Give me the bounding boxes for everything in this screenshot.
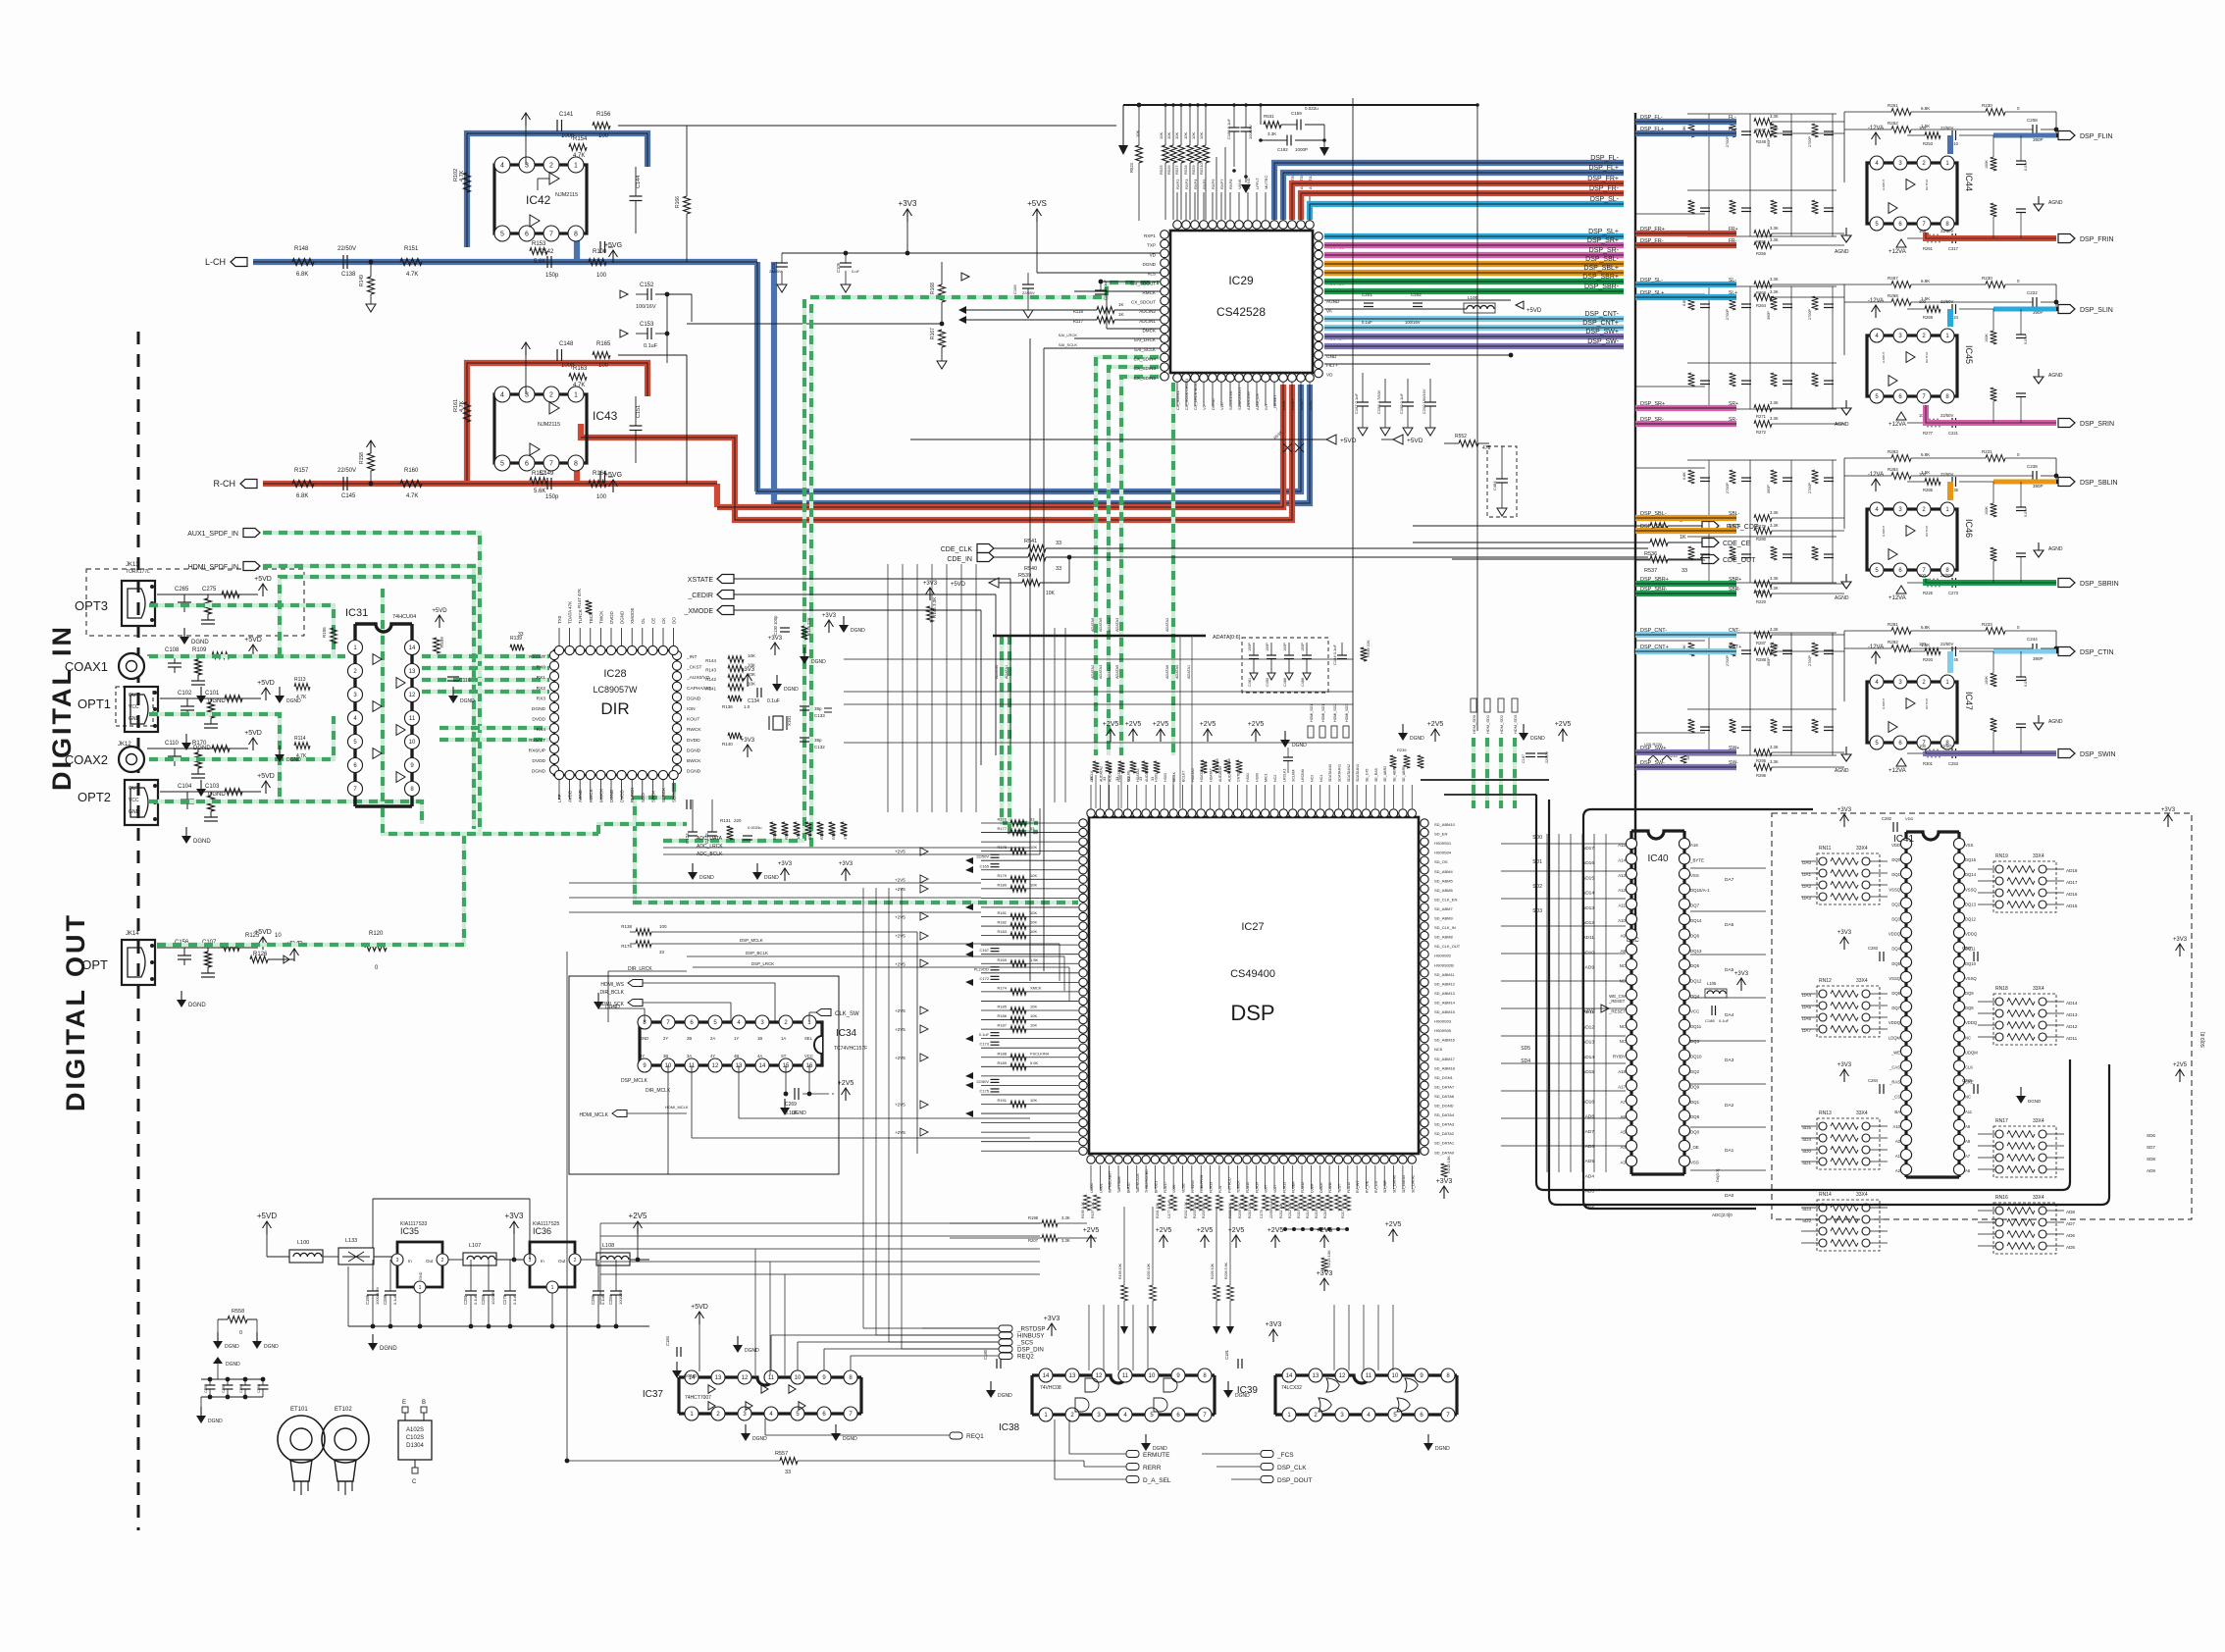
svg-text:CDE_IN: CDE_IN (947, 556, 972, 563)
svg-text:LPF: LPF (557, 794, 562, 802)
svg-text:RWCK: RWCK (687, 727, 701, 733)
svg-text:INT: INT (1264, 403, 1268, 410)
svg-text:CX_SDIN2: CX_SDIN2 (1134, 376, 1157, 381)
svg-text:SD_ABM15: SD_ABM15 (1434, 1009, 1456, 1014)
svg-text:2700P: 2700P (1808, 655, 1812, 666)
svg-text:ADATA5: ADATA5 (1099, 618, 1103, 632)
svg-text:R142: R142 (705, 677, 716, 682)
svg-text:R189: R189 (997, 1060, 1007, 1065)
IC36 regulator KIA1117S25 (530, 1242, 575, 1287)
svg-text:390P: 390P (2033, 656, 2044, 661)
svg-text:R205 10K: R205 10K (1211, 1263, 1215, 1279)
svg-text:R195 3.3K: R195 3.3K (1081, 1201, 1085, 1218)
svg-text:DSP_SR-: DSP_SR- (1589, 247, 1620, 254)
svg-text:DA7: DA7 (1802, 1028, 1811, 1033)
svg-text:SD4: SD4 (1802, 1137, 1811, 1142)
svg-text:100K: 100K (1985, 334, 1989, 342)
svg-text:L-CH: L-CH (205, 257, 226, 267)
svg-text:2700P: 2700P (1726, 309, 1730, 320)
svg-text:DGND: DGND (687, 696, 701, 701)
svg-text:33: 33 (1030, 826, 1035, 831)
svg-text:C103: C103 (205, 784, 220, 790)
svg-text:DO: DO (672, 617, 677, 624)
svg-text:DA2: DA2 (1725, 1103, 1734, 1109)
resistor network RN11 (1817, 853, 1880, 904)
svg-text:R225: R225 (1923, 591, 1934, 595)
svg-text:R528: R528 (1183, 165, 1188, 175)
svg-text:R105: R105 (322, 627, 327, 638)
svg-text:DSP_SBR+: DSP_SBR+ (1640, 577, 1669, 583)
svg-text:C172: C172 (979, 976, 989, 981)
svg-text:22/50V: 22/50V (1940, 299, 1953, 304)
svg-text:0.1uF: 0.1uF (979, 1032, 990, 1037)
svg-text:HDM_SD1: HDM_SD1 (1485, 714, 1490, 734)
svg-text:DQ11: DQ11 (1690, 1024, 1702, 1029)
lines from DSP bottom to logic chips (1088, 1305, 1090, 1370)
svg-text:33: 33 (1682, 568, 1687, 574)
C197-C200 bottom right of IC29 (1362, 373, 1364, 402)
wire green HDMI (263, 566, 474, 829)
svg-text:AD11: AD11 (2066, 1036, 2078, 1041)
svg-text:6.8K: 6.8K (1921, 106, 1930, 111)
wire green HDM_SD verticals (1472, 738, 1475, 808)
wire color stub DSP_SLIN (1993, 307, 2023, 312)
svg-text:DSP_SW-: DSP_SW- (1587, 338, 1619, 345)
svg-text:C158: C158 (1012, 284, 1017, 294)
svg-text:XMCK: XMCK (1030, 985, 1042, 990)
svg-text:R216 10K: R216 10K (1323, 1202, 1327, 1218)
IC40 (1631, 831, 1684, 1174)
svg-text:A7: A7 (1621, 1100, 1627, 1105)
svg-text:R135: R135 (819, 830, 824, 840)
svg-text:FR-: FR- (1729, 238, 1737, 244)
-12VA supply (1875, 652, 1877, 664)
svg-text:D1304: D1304 (406, 1443, 424, 1449)
svg-text:4.7K: 4.7K (406, 272, 418, 278)
svg-text:AD1/CDIN: AD1/CDIN (1246, 391, 1251, 410)
routing lines left of DSP to IC34 (569, 882, 981, 884)
svg-text:DSP_SBR+: DSP_SBR+ (1582, 274, 1619, 281)
svg-text:CK: CK (661, 618, 666, 624)
svg-text:Out: Out (426, 1259, 434, 1264)
svg-text:R272: R272 (1756, 430, 1767, 435)
svg-text:+2V5: +2V5 (1083, 1227, 1100, 1234)
svg-text:FDA14: FDA14 (1255, 1182, 1259, 1193)
svg-text:AD6: AD6 (2066, 1233, 2075, 1238)
svg-text:HDMI_WS: HDMI_WS (600, 982, 624, 988)
+2V5 arrow (637, 1222, 639, 1234)
svg-text:SDATA4N2: SDATA4N2 (1347, 764, 1351, 782)
svg-text:+2V5: +2V5 (895, 877, 906, 882)
svg-text:DGND: DGND (188, 1003, 206, 1008)
svg-text:RX6/UP: RX6/UP (529, 748, 545, 753)
svg-text:150p: 150p (545, 273, 559, 279)
ET101 ring terminal (278, 1416, 325, 1463)
svg-text:IC37: IC37 (643, 1389, 664, 1400)
wire green ADC_DATA row (663, 839, 804, 843)
svg-text:C490: C490 (1266, 678, 1269, 687)
svg-text:0.1uF: 0.1uF (512, 1294, 517, 1305)
svg-text:22/50V: 22/50V (337, 246, 356, 252)
svg-text:RN13: RN13 (1819, 1110, 1832, 1116)
svg-text:C273: C273 (1948, 591, 1959, 595)
IC41 (1906, 832, 1959, 1177)
svg-text:AD9: AD9 (1585, 965, 1595, 971)
svg-text:DGND: DGND (286, 698, 301, 704)
wire green AUX1 (263, 533, 480, 836)
svg-text:NJM2115: NJM2115 (555, 192, 578, 198)
svg-text:R238: R238 (1227, 758, 1231, 767)
svg-text:R220: R220 (1756, 599, 1767, 604)
svg-text:+2V5: +2V5 (629, 1212, 647, 1220)
svg-text:SD3: SD3 (1802, 1207, 1811, 1212)
svg-text:DA0: DA0 (1802, 860, 1811, 865)
svg-text:+2V5: +2V5 (895, 1056, 906, 1060)
svg-text:SD_DATA1: SD_DATA1 (1402, 1175, 1406, 1193)
svg-text:1B: 1B (757, 1036, 762, 1041)
horizontal routing over DSP area (844, 658, 1353, 660)
svg-text:DSP_BCLK: DSP_BCLK (746, 951, 768, 955)
svg-text:C184 0.1uF: C184 0.1uF (1332, 645, 1337, 665)
svg-text:R114: R114 (294, 736, 306, 742)
svg-text:22/50V: 22/50V (1940, 573, 1953, 578)
output DSP_SRIN (1925, 420, 1940, 427)
cap C144 2700p right of IC42 (630, 195, 643, 197)
C105/C106 caps (782, 252, 907, 254)
svg-text:VD: VD (1326, 373, 1333, 378)
svg-text:3.3K: 3.3K (1770, 745, 1779, 749)
svg-text:22/50V: 22/50V (1940, 229, 1953, 233)
svg-text:C173: C173 (979, 1042, 989, 1047)
svg-text:SD_ABM10: SD_ABM10 (1434, 822, 1456, 827)
wire color stub DSP_SBLIN (1993, 480, 2023, 485)
svg-text:C195: C195 (365, 1294, 370, 1305)
svg-text:7: 7 (549, 232, 553, 238)
svg-text:HDM_SD3: HDM_SD3 (1513, 714, 1518, 734)
svg-text:LRCLK: LRCLK (1090, 770, 1094, 782)
svg-text:+3V3: +3V3 (1044, 1316, 1061, 1322)
svg-text:R269: R269 (1923, 315, 1934, 320)
svg-text:R281: R281 (1888, 622, 1898, 627)
svg-text:+3V3: +3V3 (1837, 1062, 1852, 1068)
svg-text:AUX1_SPDF_IN: AUX1_SPDF_IN (187, 531, 238, 538)
svg-text:V027: V027 (1273, 1185, 1277, 1193)
svg-text:6.8K: 6.8K (296, 272, 308, 278)
svg-text:DSP_CNT+: DSP_CNT+ (1582, 320, 1619, 327)
svg-text:C279: C279 (502, 1294, 507, 1305)
svg-text:-12VA: -12VA (1868, 472, 1884, 478)
svg-text:NC5: NC5 (1434, 1047, 1443, 1052)
svg-text:AGND: AGND (1835, 249, 1849, 255)
svg-text:R203 3.3K: R203 3.3K (1193, 1201, 1197, 1218)
svg-text:+2V5: +2V5 (895, 1008, 906, 1013)
svg-text:+3V3: +3V3 (1266, 1321, 1282, 1328)
svg-text:220: 220 (734, 818, 742, 823)
output DSP_FLIN (1925, 132, 1940, 139)
svg-text:NC2: NC2 (1273, 775, 1277, 782)
svg-text:ADATA3: ADATA3 (1099, 665, 1103, 679)
svg-text:R165: R165 (596, 341, 611, 347)
+5VD rail y448 (910, 439, 1326, 440)
svg-text:R191: R191 (997, 1098, 1007, 1103)
svg-text:22/50V: 22/50V (1940, 126, 1953, 130)
svg-text:3.3K: 3.3K (1770, 759, 1779, 764)
svg-text:R120: R120 (369, 931, 384, 937)
svg-text:R200 10K: R200 10K (1147, 1263, 1151, 1279)
svg-text:100: 100 (1919, 472, 1927, 477)
svg-text:DGND: DGND (784, 687, 799, 693)
svg-text:+3V3: +3V3 (923, 581, 938, 587)
svg-text:DSP_LRCK: DSP_LRCK (751, 961, 774, 966)
svg-text:R248: R248 (1756, 139, 1767, 144)
svg-text:RXP4: RXP4 (1193, 179, 1198, 189)
svg-text:DSP_SBR-: DSP_SBR- (1584, 284, 1620, 290)
cap bank C291-C294 (213, 1358, 218, 1366)
svg-text:CLK: CLK (1965, 1065, 1973, 1070)
svg-text:DGND: DGND (193, 839, 211, 845)
R218 10K right below DSP (1441, 1163, 1448, 1177)
svg-text:R217 10K: R217 10K (1341, 1202, 1345, 1218)
wire green IC31 loop (280, 577, 483, 656)
R157 6.8K (292, 481, 314, 488)
svg-text:C144: C144 (636, 176, 642, 188)
svg-text:CDE_CLK: CDE_CLK (941, 546, 973, 553)
svg-text:DQ13: DQ13 (1690, 949, 1702, 954)
svg-text:DSP_SW-: DSP_SW- (1640, 760, 1665, 766)
svg-text:100K: 100K (1985, 676, 1989, 685)
svg-text:HS09S01: HS09S01 (1434, 841, 1452, 846)
svg-text:VSS: VSS (1965, 843, 1974, 848)
svg-text:33X4: 33X4 (2033, 1118, 2044, 1124)
svg-text:+5VD: +5VD (257, 1212, 277, 1220)
svg-text:DSP_CTIN: DSP_CTIN (2080, 649, 2114, 656)
svg-text:AD11: AD11 (1582, 935, 1594, 941)
svg-text:74VHC08: 74VHC08 (1040, 1385, 1061, 1391)
svg-text:A3: A3 (1621, 1160, 1627, 1164)
svg-text:C175: C175 (979, 1088, 989, 1093)
svg-text:FPM/05: FPM/05 (1191, 1180, 1195, 1193)
svg-text:C486: C486 (1283, 678, 1287, 687)
svg-text:AGND: AGND (2048, 546, 2063, 552)
svg-text:2700P: 2700P (1808, 309, 1812, 320)
R151 4.7K (400, 259, 422, 266)
R105 resistors near IC31 (331, 628, 337, 644)
svg-text:3: 3 (396, 1258, 399, 1264)
svg-text:ADC[2:0]0: ADC[2:0]0 (1712, 1213, 1733, 1217)
svg-text:OL: OL (641, 617, 646, 624)
svg-text:SDATA4N1: SDATA4N1 (1337, 764, 1341, 782)
svg-text:C282: C282 (1882, 816, 1892, 821)
svg-text:2700P: 2700P (1726, 136, 1730, 147)
svg-text:0: 0 (239, 1330, 242, 1336)
wire green IC28 right RX rows (598, 824, 687, 834)
svg-text:C198 4.7/50V: C198 4.7/50V (1376, 389, 1381, 414)
svg-text:DQ8: DQ8 (1690, 1114, 1700, 1119)
svg-text:DGND: DGND (1435, 1446, 1450, 1452)
svg-text:NJM2115: NJM2115 (538, 422, 560, 428)
svg-text:HDMI_SPDF_IN: HDMI_SPDF_IN (188, 564, 238, 571)
svg-text:SD_ABM17: SD_ABM17 (1434, 1057, 1456, 1061)
svg-text:DGND: DGND (752, 1436, 767, 1442)
svg-text:REQ1: REQ1 (966, 1433, 984, 1440)
svg-text:R263: R263 (1756, 290, 1767, 295)
svg-text:DQ5: DQ5 (1690, 963, 1700, 968)
svg-text:100: 100 (1919, 299, 1927, 304)
output DSP_SBLIN (1925, 479, 1940, 486)
svg-text:R113: R113 (294, 677, 306, 683)
svg-text:_RSTDSP: _RSTDSP (1016, 1326, 1046, 1333)
svg-text:R538 22K: R538 22K (1366, 640, 1371, 657)
svg-text:In: In (408, 1259, 412, 1264)
svg-text:R146 22K: R146 22K (806, 617, 811, 636)
R145 3.3K right (927, 606, 934, 622)
svg-text:DGND: DGND (998, 1393, 1012, 1399)
svg-text:-12VA: -12VA (1868, 645, 1884, 650)
svg-text:33X4: 33X4 (2033, 986, 2044, 992)
photocoupler A102S/C102S/D1304 (398, 1420, 432, 1460)
svg-text:390P: 390P (1767, 657, 1771, 666)
svg-text:VLC: VLC (1219, 402, 1224, 410)
svg-text:R527: R527 (1174, 165, 1179, 175)
svg-text:FDA15: FDA15 (1246, 1182, 1250, 1193)
svg-text:+3V3: +3V3 (778, 861, 793, 867)
svg-text:R212 10K: R212 10K (1288, 1202, 1292, 1218)
svg-text:+2V5: +2V5 (1156, 1227, 1172, 1234)
svg-text:ADATA2: ADATA2 (1091, 665, 1095, 679)
long vertical trunks (1352, 98, 1354, 814)
svg-text:3.3K: 3.3K (1061, 1215, 1070, 1220)
svg-text:DQ10: DQ10 (1690, 1055, 1702, 1059)
C149 150p + R164 (546, 478, 548, 490)
svg-text:R164: R164 (593, 471, 607, 477)
L-CH input connector (231, 258, 247, 267)
svg-text:10K: 10K (1030, 929, 1037, 934)
inductor L107 (463, 1253, 496, 1265)
svg-text:33X4: 33X4 (1856, 1110, 1868, 1116)
filter L133 (338, 1248, 374, 1265)
svg-text:DGND: DGND (191, 640, 209, 645)
ET102 ring terminal (322, 1416, 369, 1463)
connectors _RSTDSP..REQ2 (999, 1325, 1012, 1332)
svg-text:C102: C102 (178, 691, 192, 697)
svg-text:+5VG: +5VG (604, 472, 622, 479)
svg-text:RN19: RN19 (1995, 853, 2008, 859)
svg-text:DQ1: DQ1 (1690, 1100, 1700, 1105)
section IC46 right RC (1991, 503, 1997, 517)
svg-text:RN18: RN18 (1995, 986, 2008, 992)
svg-text:SD_ABM5: SD_ABM5 (1434, 878, 1453, 883)
lines bottom-right bus area (0, 0, 186, 1)
connectors ERMUTE/RERR/D_A_SEL (1126, 1451, 1139, 1458)
svg-text:DVDD: DVDD (532, 758, 545, 764)
svg-text:12: 12 (1096, 1373, 1103, 1379)
svg-text:10: 10 (795, 1375, 802, 1381)
svg-text:R183: R183 (997, 929, 1007, 934)
svg-text:VSS: VSS (1690, 873, 1699, 878)
svg-text:HDMI_SD1: HDMI_SD1 (1321, 704, 1325, 722)
svg-text:11: 11 (768, 1375, 775, 1381)
svg-text:C130 100p: C130 100p (773, 615, 778, 636)
svg-text:33: 33 (1056, 541, 1061, 546)
svg-text:DSP_SBRIN: DSP_SBRIN (2080, 581, 2119, 588)
R168 10K / R167 12K right column (939, 284, 946, 302)
svg-text:HINBUSY: HINBUSY (1017, 1333, 1045, 1340)
wire green OPT out (157, 836, 464, 945)
power arrow above IC42 (525, 114, 527, 126)
svg-text:+5VS: +5VS (1027, 199, 1047, 208)
left-pointing black arrows (965, 857, 973, 864)
svg-text:_RESET: _RESET (1608, 1008, 1626, 1013)
svg-text:6: 6 (525, 461, 529, 468)
svg-text:39p: 39p (814, 706, 822, 711)
svg-text:COAX1: COAX1 (65, 659, 108, 674)
svg-text:VDD: VDD (1891, 843, 1900, 848)
svg-text:DGND: DGND (745, 1348, 759, 1354)
top feedback wire (373, 1199, 530, 1260)
resistor R153 5.6K under IC42 (530, 248, 547, 255)
svg-text:VSSQ: VSSQ (1889, 976, 1900, 981)
wire L-CH blue (253, 259, 757, 265)
svg-text:11: 11 (1122, 1373, 1129, 1379)
svg-text:DQ2: DQ2 (1891, 902, 1900, 906)
svg-text:DSP_MCLK: DSP_MCLK (621, 1078, 648, 1084)
svg-text:DVDD: DVDD (532, 717, 545, 723)
svg-text:DSP_FL-: DSP_FL- (1590, 155, 1619, 162)
svg-text:SD6: SD6 (2147, 1133, 2155, 1138)
svg-text:AD5: AD5 (1585, 1159, 1595, 1164)
svg-text:SD3: SD3 (1532, 908, 1542, 914)
svg-text:ADATA0: ADATA0 (995, 665, 999, 679)
svg-text:DSP_SR+: DSP_SR+ (1640, 401, 1665, 407)
+3V3 + C181 at IC39 (1272, 1330, 1274, 1342)
below IC28 component row (688, 831, 698, 833)
svg-text:A2: A2 (1895, 1168, 1901, 1173)
svg-text:C221: C221 (1948, 431, 1959, 436)
svg-text:RY/BY: RY/BY (1613, 1055, 1626, 1059)
svg-text:3.3K: 3.3K (1770, 627, 1779, 632)
dashed enclosure (DRAM block) (1772, 813, 2192, 1219)
svg-text:C110: C110 (165, 741, 180, 747)
svg-text:DVDD: DVDD (687, 738, 700, 744)
svg-text:+2V5: +2V5 (895, 1027, 906, 1032)
svg-text:SD8: SD8 (2147, 1157, 2155, 1162)
svg-text:3.3K: 3.3K (1770, 226, 1779, 231)
svg-text:DSP_SR+: DSP_SR+ (1587, 237, 1619, 244)
svg-text:MCLK: MCLK (1172, 771, 1176, 782)
svg-text:RXP3: RXP3 (1184, 179, 1189, 189)
svg-text:C192: C192 (1277, 147, 1288, 152)
svg-text:DQ3: DQ3 (1891, 917, 1900, 922)
svg-text:FDA19: FDA19 (1210, 1182, 1214, 1193)
svg-text:DQ10: DQ10 (1965, 961, 1977, 966)
svg-text:VDDQ: VDDQ (1965, 1020, 1978, 1025)
R534 cross marks (1283, 443, 1304, 452)
svg-text:DGND: DGND (1211, 398, 1216, 410)
svg-text:BMOD: BMOD (1126, 1182, 1130, 1193)
svg-text:100K: 100K (1985, 506, 1989, 515)
svg-text:R279: R279 (1756, 524, 1767, 529)
svg-text:L107: L107 (469, 1243, 481, 1249)
wire green OPT2 row (149, 801, 422, 824)
svg-text:SD_ABM6: SD_ABM6 (1434, 888, 1453, 893)
svg-text:COAX2: COAX2 (65, 752, 108, 767)
svg-text:C275: C275 (202, 587, 217, 593)
R120 resistor on OPT line (365, 945, 387, 952)
svg-text:KIA1117S33: KIA1117S33 (400, 1221, 428, 1227)
svg-text:2: 2 (574, 1258, 577, 1264)
svg-text:DSP_FRIN: DSP_FRIN (2080, 236, 2114, 243)
svg-text:DQ4: DQ4 (1891, 947, 1900, 952)
